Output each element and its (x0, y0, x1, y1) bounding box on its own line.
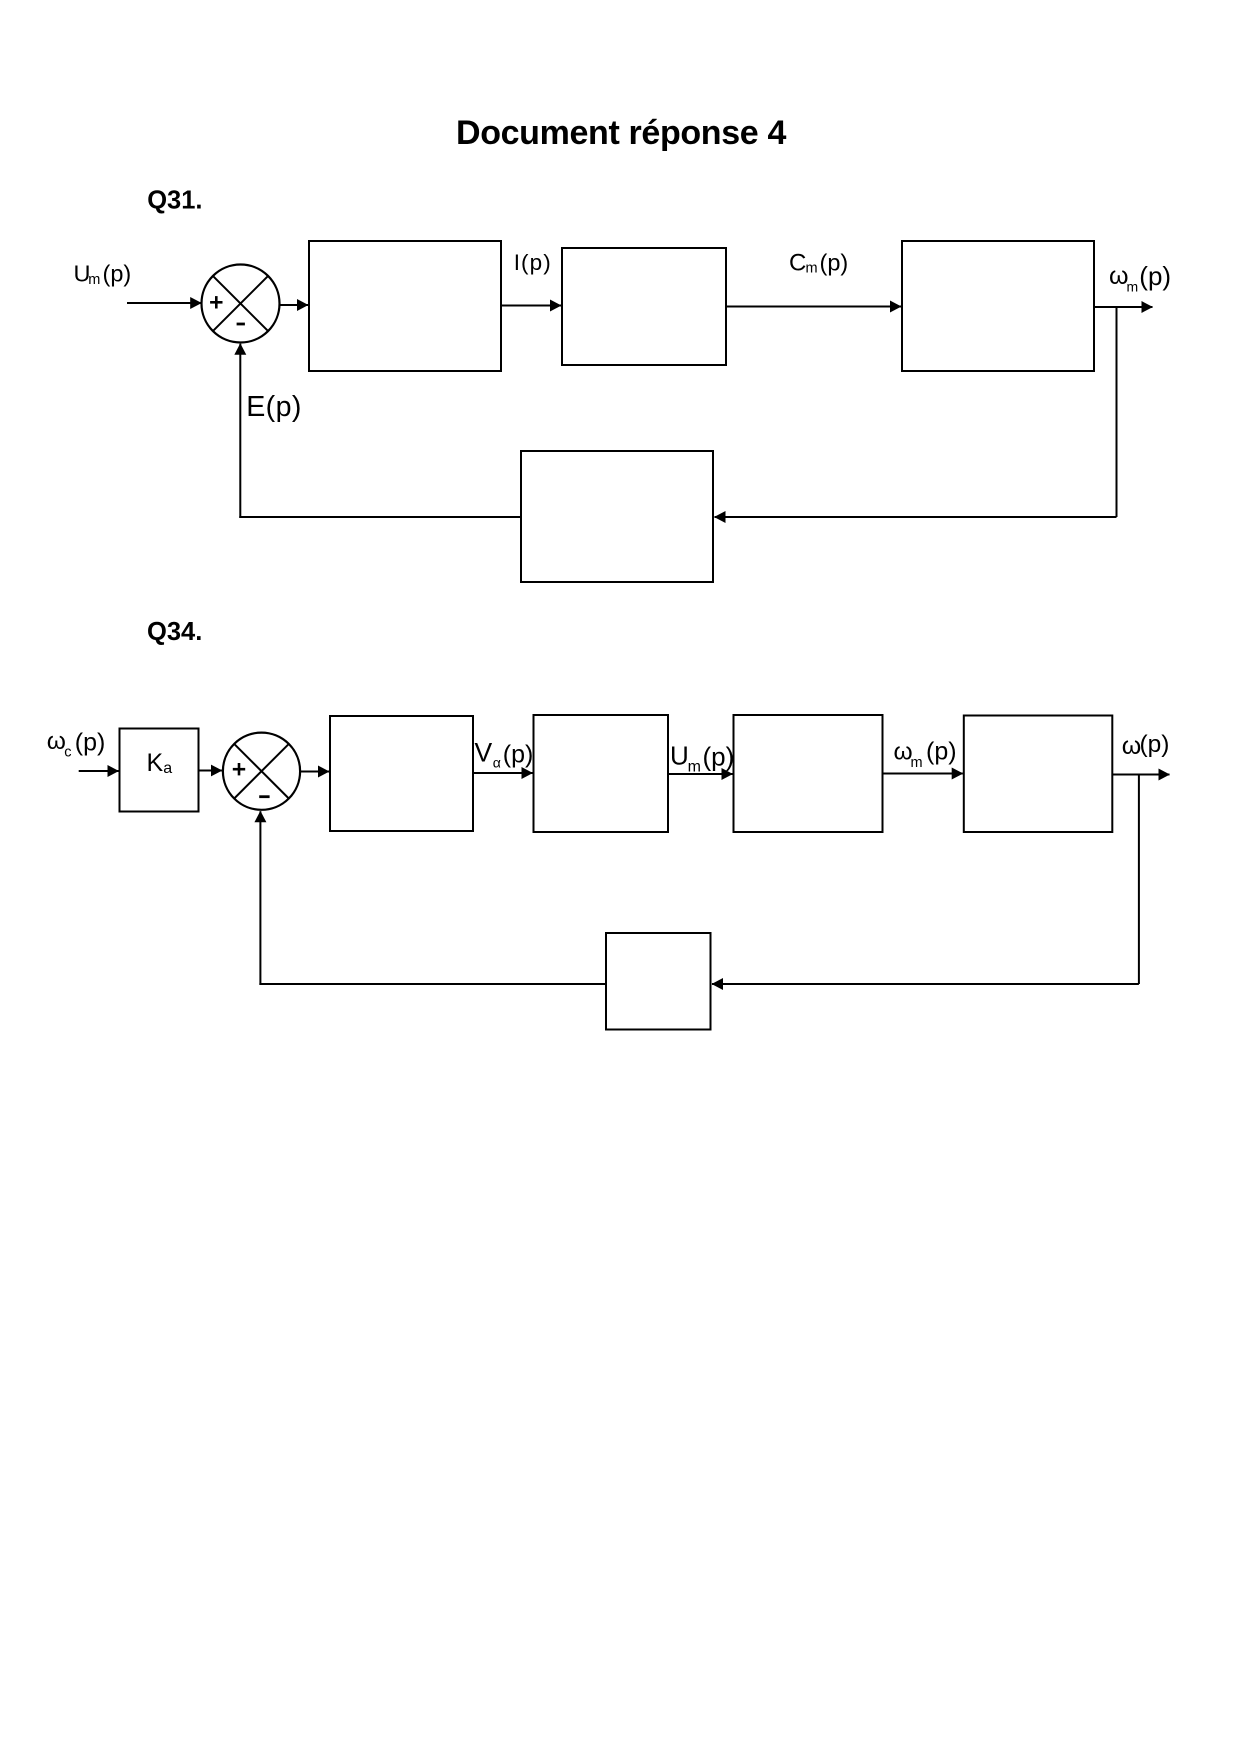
svg-text:(p): (p) (75, 728, 106, 756)
wire: feedback up into summing junction S2 minus input (259, 811, 261, 985)
wire: Ka output into summing junction S2 (199, 770, 222, 772)
svg-text:K: K (147, 749, 164, 777)
label Um(p) input signal Q31 (74, 261, 132, 289)
wire: B8 output omega(p), output arrow Q34 (1112, 774, 1169, 776)
svg-text:m: m (88, 272, 100, 288)
label Um(p) signal Q34 (670, 740, 734, 775)
svg-text:Q31.: Q31. (147, 187, 202, 215)
svg-text:ω: ω (47, 728, 66, 755)
wire: feedback up into summing junction S1 minus input (239, 344, 241, 518)
block Ka (gain block, Q34) (120, 729, 199, 812)
svg-text:C: C (789, 249, 806, 276)
svg-text:V: V (475, 738, 493, 768)
svg-text:m: m (688, 758, 701, 775)
svg-text:(p): (p) (1140, 731, 1170, 758)
label omega_m(p) signal Q34 (894, 738, 957, 771)
label Ka inside gain block (147, 749, 173, 777)
label V_alpha(p) signal Q34 (475, 738, 534, 771)
svg-text:m: m (1127, 279, 1139, 295)
svg-text:(p): (p) (1139, 261, 1171, 291)
svg-text:U: U (670, 740, 689, 770)
wire: B4 output leftward, Q31 (239, 516, 521, 518)
block B3 (empty transfer-function box, Q31) (902, 241, 1094, 371)
block B1 (empty transfer-function box, Q31) (309, 241, 501, 371)
svg-text:(p): (p) (820, 249, 849, 275)
label omega_c(p) input signal Q34 (47, 728, 106, 761)
block B7 (empty transfer-function box, Q34) (734, 715, 883, 832)
summing junction S2 (Q34 comparator circle with X cross, plus and minus signs) (223, 733, 300, 810)
wire: B9 output leftward, Q34 (259, 983, 606, 985)
svg-text:α: α (493, 755, 501, 771)
wire: B7 output omega_m(p) to block B8 (883, 773, 963, 775)
wire: S2 output to block B5 (300, 771, 329, 773)
summing junction S1 (Q31 comparator circle with X cross, plus and minus signs) (202, 265, 280, 343)
svg-text:(p): (p) (103, 261, 132, 287)
svg-text:I(p): I(p) (514, 250, 552, 275)
wire: B5 output V_alpha(p) to block B6 (473, 772, 533, 774)
wire: omega_c(p) input into gain block Ka (79, 770, 119, 772)
svg-text:(p): (p) (703, 741, 735, 771)
svg-text:m: m (911, 755, 923, 771)
block B9 (feedback transfer-function box, Q34) (606, 933, 711, 1030)
wire: feedback into block B4 right side, Q31 (715, 516, 1117, 518)
wire: feedback branch drop from output node, Q34 (1138, 775, 1140, 985)
wire: B3 output omega_m(p), output arrow Q31 (1094, 306, 1153, 308)
wire: feedback into block B9 right side, Q34 (712, 983, 1139, 985)
wire: S1 output to block B1 (280, 304, 308, 306)
svg-text:m: m (806, 260, 818, 276)
svg-text:a: a (163, 760, 172, 777)
label Cm(p) signal Q31 (789, 249, 848, 276)
svg-text:ω: ω (1122, 732, 1142, 760)
block B8 (empty transfer-function box, Q34) (964, 716, 1113, 833)
wire: B1 output I(p) to block B2 (501, 305, 561, 307)
svg-text:Document réponse 4: Document réponse 4 (456, 114, 786, 152)
svg-text:(p): (p) (926, 738, 957, 766)
block B2 (empty transfer-function box, Q31) (562, 248, 726, 365)
block B4 (feedback transfer-function box, Q31) (521, 451, 713, 582)
svg-text:Q34.: Q34. (147, 618, 202, 646)
label omega(p) output signal Q34 (1122, 731, 1170, 760)
svg-text:c: c (64, 745, 71, 761)
label omega_m(p) output signal Q31 (1109, 261, 1171, 295)
wire: B6 output Um(p) to block B7 (668, 773, 733, 775)
block B6 (empty transfer-function box, Q34) (534, 715, 669, 832)
svg-text:E(p): E(p) (246, 391, 302, 423)
wire: Um(p) input into summing junction S1 (127, 302, 201, 304)
wire: B2 output Cm(p) to block B3 (726, 306, 901, 308)
block B5 (empty transfer-function box, Q34) (330, 716, 473, 831)
svg-text:(p): (p) (503, 740, 534, 768)
wire: feedback branch drop from output node, Q31 (1116, 307, 1118, 517)
